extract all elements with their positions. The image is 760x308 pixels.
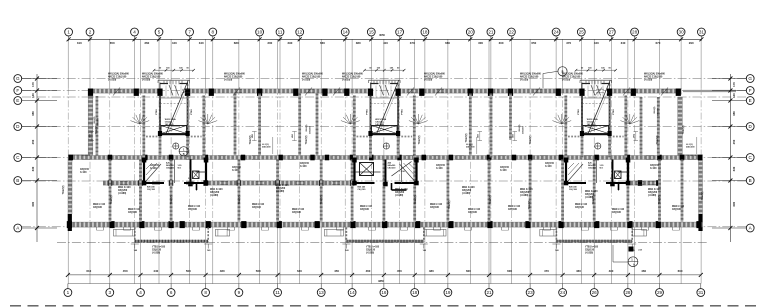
svg-text:W2CL760A: W2CL760A	[587, 118, 598, 121]
svg-text:KL6(2): KL6(2)	[94, 116, 96, 123]
svg-text:(-0.080): (-0.080)	[462, 193, 470, 195]
svg-text:N4C22 C10@100: N4C22 C10@100	[562, 75, 581, 78]
wall band on line C	[68, 156, 703, 160]
right end wall upper	[678, 97, 683, 156]
svg-text:1: 1	[67, 30, 70, 35]
svg-text:380: 380	[356, 41, 361, 45]
service cluster 2	[352, 158, 419, 192]
svg-text:YKL7(2): YKL7(2)	[683, 125, 685, 134]
svg-text:C8@180: C8@180	[188, 209, 198, 211]
svg-text:450: 450	[334, 269, 339, 273]
interior partitions upper	[97, 94, 658, 158]
svg-text:LL1(1): LL1(1)	[262, 144, 269, 146]
svg-text:15: 15	[369, 30, 375, 35]
svg-text:460: 460	[576, 269, 581, 273]
svg-text:WB1 h=120: WB1 h=120	[395, 189, 408, 191]
svg-text:C8@150: C8@150	[500, 167, 510, 169]
svg-text:31: 31	[699, 30, 705, 35]
stair fans core 2	[341, 114, 428, 124]
svg-text:YTB1 h=100: YTB1 h=100	[585, 247, 599, 249]
svg-text:3: 3	[109, 290, 112, 295]
window marks on C wall	[82, 156, 696, 159]
annotations below balconies	[152, 247, 599, 255]
svg-text:14: 14	[350, 290, 356, 295]
svg-text:C8@150: C8@150	[150, 165, 160, 167]
window marks on B wall	[120, 181, 656, 184]
svg-text:C8@200: C8@200	[395, 192, 405, 194]
svg-text:(-0.080): (-0.080)	[520, 195, 528, 197]
svg-text:YKL7(2): YKL7(2)	[171, 195, 173, 204]
detail circle mark b	[613, 245, 638, 267]
svg-text:140: 140	[732, 93, 736, 98]
svg-text:600: 600	[507, 269, 512, 273]
svg-text:290: 290	[689, 41, 694, 45]
svg-text:C8@200: C8@200	[118, 190, 128, 192]
svg-text:WB2 h=110: WB2 h=110	[612, 209, 625, 211]
svg-text:10: 10	[257, 30, 263, 35]
svg-text:440: 440	[172, 41, 177, 45]
svg-text:5: 5	[158, 30, 161, 35]
svg-text:C8@150: C8@150	[366, 249, 376, 251]
svg-text:C8@180: C8@180	[508, 209, 518, 211]
svg-text:340: 340	[621, 41, 626, 45]
svg-text:C8@180: C8@180	[575, 207, 585, 209]
svg-text:N4C22 C10@100: N4C22 C10@100	[644, 75, 663, 78]
left end wall lower	[68, 158, 72, 231]
svg-text:WB2 h=110: WB2 h=110	[292, 209, 305, 211]
svg-text:(-0.030): (-0.030)	[142, 79, 150, 81]
svg-text:670: 670	[655, 41, 660, 45]
svg-text:480: 480	[220, 269, 225, 273]
svg-text:h=100: h=100	[80, 172, 87, 174]
svg-text:26: 26	[592, 290, 598, 295]
vertical grid lines	[68, 39, 701, 283]
svg-text:2: 2	[89, 30, 92, 35]
service cluster 1	[142, 158, 209, 192]
right end wall lower	[699, 158, 703, 231]
svg-text:C8@180: C8@180	[128, 212, 138, 214]
svg-text:N4C22 C10@100: N4C22 C10@100	[520, 75, 539, 78]
svg-text:KL6(2): KL6(2)	[519, 124, 521, 131]
svg-text:(-0.080): (-0.080)	[210, 195, 218, 197]
svg-text:25: 25	[579, 30, 585, 35]
svg-text:h=100: h=100	[650, 168, 657, 170]
svg-text:h=100: h=100	[545, 166, 552, 168]
svg-text:WB2 h=110: WB2 h=110	[128, 209, 141, 211]
svg-text:C8@200: C8@200	[588, 168, 597, 170]
svg-text:490: 490	[609, 269, 614, 273]
svg-text:WB1 h=120: WB1 h=120	[520, 189, 533, 191]
svg-text:WB2 h=110: WB2 h=110	[93, 204, 106, 206]
svg-text:170: 170	[31, 82, 35, 87]
bottom dimension line	[66, 269, 703, 289]
svg-text:240x300: 240x300	[466, 146, 475, 149]
svg-text:650: 650	[110, 41, 115, 45]
svg-text:WB2 h=110: WB2 h=110	[188, 206, 201, 208]
columns on line A	[67, 221, 702, 228]
svg-text:30: 30	[679, 30, 685, 35]
svg-text:(-0.030): (-0.030)	[644, 79, 652, 81]
svg-text:650: 650	[531, 41, 536, 45]
svg-text:C8@180: C8@180	[252, 207, 262, 209]
top exterior wall	[88, 89, 682, 93]
svg-text:C6@180: C6@180	[147, 189, 156, 191]
svg-text:WB2 h=110: WB2 h=110	[468, 209, 481, 211]
svg-text:WKL2(3A) 300x900: WKL2(3A) 300x900	[342, 73, 364, 76]
svg-text:410: 410	[383, 41, 388, 45]
svg-text:YKL7(2): YKL7(2)	[657, 135, 659, 144]
svg-text:3050: 3050	[379, 33, 385, 37]
svg-text:YKL7(2): YKL7(2)	[96, 125, 98, 134]
svg-text:E: E	[16, 98, 19, 103]
svg-text:PTB1: PTB1	[402, 108, 404, 114]
svg-text:300x600: 300x600	[98, 117, 100, 126]
svg-text:27: 27	[609, 30, 615, 35]
svg-text:20: 20	[468, 30, 474, 35]
svg-text:(-0.030): (-0.030)	[302, 79, 310, 81]
svg-text:W2CL760A: W2CL760A	[165, 118, 176, 121]
svg-text:140 2400: 140 2400	[375, 123, 385, 126]
svg-text:310: 310	[77, 41, 82, 45]
svg-text:h=100: h=100	[300, 166, 307, 168]
svg-text:680: 680	[234, 41, 239, 45]
svg-text:YKL7(2): YKL7(2)	[239, 195, 241, 204]
right dimension line	[712, 74, 746, 242]
stair core 1	[144, 67, 204, 158]
svg-text:C8@150: C8@150	[232, 167, 242, 169]
svg-text:YKL7(2): YKL7(2)	[415, 195, 417, 204]
top grid bubbles	[65, 28, 706, 36]
svg-text:B: B	[183, 153, 185, 156]
svg-text:h=100: h=100	[232, 170, 239, 172]
svg-text:(-0.830): (-0.830)	[152, 252, 160, 254]
svg-text:C8@180: C8@180	[430, 207, 440, 209]
svg-text:N4C22 C10@100: N4C22 C10@100	[224, 75, 243, 78]
svg-text:460: 460	[641, 269, 646, 273]
svg-text:300x600: 300x600	[310, 125, 312, 134]
svg-text:(-0.030): (-0.030)	[108, 79, 116, 81]
svg-text:(-0.080): (-0.080)	[395, 195, 403, 197]
svg-text:C8@200: C8@200	[462, 190, 472, 192]
svg-text:WB1 h=120: WB1 h=120	[276, 185, 289, 187]
svg-text:450: 450	[31, 139, 35, 144]
svg-text:N4C22 C10@100: N4C22 C10@100	[108, 75, 127, 78]
door marks below line A wall	[97, 227, 680, 230]
left dimension line	[22, 74, 57, 242]
svg-text:660: 660	[445, 41, 450, 45]
svg-text:F: F	[749, 88, 752, 93]
svg-text:18: 18	[412, 290, 418, 295]
svg-text:C8@180: C8@180	[93, 207, 103, 209]
svg-text:360: 360	[144, 41, 149, 45]
svg-text:14: 14	[343, 30, 349, 35]
svg-text:WKL2(3A) 300x900: WKL2(3A) 300x900	[562, 73, 584, 76]
stair fans core 1	[130, 114, 217, 124]
svg-text:8: 8	[204, 290, 207, 295]
svg-text:24: 24	[554, 30, 560, 35]
svg-text:YKL7(2): YKL7(2)	[63, 185, 65, 194]
svg-text:YTB1 h=100: YTB1 h=100	[366, 247, 380, 249]
svg-text:PTB1: PTB1	[578, 108, 580, 114]
line F thick right extension	[683, 90, 736, 92]
svg-text:YTB1 h=100: YTB1 h=100	[152, 247, 166, 249]
top wall columns	[88, 89, 681, 96]
svg-text:h=100: h=100	[500, 170, 507, 172]
svg-text:450: 450	[732, 139, 736, 144]
svg-text:600: 600	[678, 269, 683, 273]
left end wall upper	[88, 96, 93, 156]
svg-text:140: 140	[31, 93, 35, 98]
svg-text:4: 4	[139, 290, 142, 295]
svg-text:YKL7(2): YKL7(2)	[466, 133, 468, 142]
svg-text:470: 470	[544, 269, 549, 273]
balconies below line A	[114, 228, 647, 242]
svg-text:480: 480	[429, 269, 434, 273]
svg-text:C8@180: C8@180	[292, 212, 302, 214]
svg-text:C8@150: C8@150	[436, 165, 446, 167]
svg-text:YKL7(2): YKL7(2)	[593, 195, 595, 204]
stair core 2	[354, 67, 414, 158]
svg-text:C8@180: C8@180	[612, 212, 622, 214]
svg-text:29: 29	[657, 290, 663, 295]
svg-text:WKL2(3A) 300x900: WKL2(3A) 300x900	[224, 73, 246, 76]
svg-text:C8@150: C8@150	[545, 163, 555, 165]
svg-text:450: 450	[123, 269, 128, 273]
room texts lower band	[93, 204, 685, 214]
svg-text:WKL2(3A) 300x900: WKL2(3A) 300x900	[108, 73, 130, 76]
wall band on line B	[103, 181, 661, 185]
annotations in rooms	[118, 185, 661, 199]
svg-text:YKL7(2): YKL7(2)	[490, 195, 492, 204]
svg-text:C8@200: C8@200	[648, 192, 658, 194]
svg-text:YKL7(2): YKL7(2)	[529, 200, 531, 209]
svg-text:340: 340	[199, 41, 204, 45]
svg-text:B: B	[16, 178, 19, 183]
svg-text:KL6(2): KL6(2)	[654, 106, 656, 113]
svg-text:(-0.830): (-0.830)	[585, 252, 593, 254]
svg-text:6: 6	[170, 290, 173, 295]
svg-text:W2CL760A: W2CL760A	[375, 118, 386, 121]
left step wall	[68, 155, 90, 158]
svg-text:YKL7(2): YKL7(2)	[419, 135, 421, 144]
svg-text:690: 690	[732, 201, 736, 206]
window sill marks on top wall	[113, 88, 670, 96]
svg-text:C8@180: C8@180	[672, 209, 682, 211]
svg-text:9: 9	[238, 290, 241, 295]
svg-text:WB1 h=120: WB1 h=120	[648, 189, 661, 191]
svg-text:4: 4	[133, 30, 136, 35]
svg-text:C8@150: C8@150	[650, 165, 660, 167]
svg-text:1: 1	[67, 290, 70, 295]
rotated beam labels	[63, 125, 704, 209]
svg-text:(-0.080): (-0.080)	[118, 193, 126, 195]
svg-text:YKL7(2): YKL7(2)	[530, 135, 532, 144]
svg-text:YKL7(2): YKL7(2)	[321, 195, 323, 204]
svg-text:(-0.030): (-0.030)	[342, 79, 350, 81]
svg-text:F: F	[16, 88, 19, 93]
horizontal grid lines A-G	[22, 79, 746, 227]
svg-text:G: G	[16, 76, 20, 81]
svg-text:610: 610	[86, 269, 91, 273]
svg-text:PTB1: PTB1	[156, 108, 158, 114]
svg-text:WB1 h=120: WB1 h=120	[585, 191, 598, 193]
beam label stacks	[94, 106, 660, 134]
svg-text:E: E	[749, 98, 752, 103]
svg-text:C8@180: C8@180	[468, 212, 478, 214]
svg-text:C6@180: C6@180	[358, 189, 367, 191]
svg-text:300: 300	[478, 41, 483, 45]
svg-text:B: B	[749, 178, 752, 183]
svg-text:600: 600	[466, 269, 471, 273]
svg-text:WKL2(3A) 300x900: WKL2(3A) 300x900	[142, 73, 164, 76]
svg-text:11: 11	[278, 30, 283, 35]
detail circle mark 5	[543, 67, 567, 88]
svg-text:330: 330	[31, 166, 35, 171]
svg-text:440: 440	[594, 41, 599, 45]
svg-text:WKL2(3A) 300x900: WKL2(3A) 300x900	[424, 73, 446, 76]
svg-text:9850: 9850	[378, 280, 384, 283]
svg-text:WB1 h=120: WB1 h=120	[118, 187, 131, 189]
columns on line B	[108, 180, 661, 186]
svg-text:YKL7(2): YKL7(2)	[111, 195, 113, 204]
svg-text:YKL7(2): YKL7(2)	[449, 200, 451, 209]
svg-text:170: 170	[732, 82, 736, 87]
svg-text:C8@150: C8@150	[585, 249, 595, 251]
balcony mini dimensions	[131, 244, 636, 252]
top dimension line	[67, 33, 704, 45]
svg-text:(-0.030): (-0.030)	[520, 79, 528, 81]
svg-text:N4C22 C10@100: N4C22 C10@100	[342, 75, 361, 78]
svg-text:WB2 h=110: WB2 h=110	[672, 206, 685, 208]
svg-text:N4C22 C10@100: N4C22 C10@100	[302, 75, 321, 78]
svg-text:WKL2(3A) 300x900: WKL2(3A) 300x900	[520, 73, 542, 76]
svg-text:290: 290	[287, 41, 292, 45]
svg-text:630: 630	[297, 269, 302, 273]
svg-text:(-0.030): (-0.030)	[424, 79, 432, 81]
svg-text:WB2 h=110: WB2 h=110	[508, 206, 521, 208]
svg-text:28: 28	[632, 30, 638, 35]
svg-text:440: 440	[153, 269, 158, 273]
svg-text:17: 17	[397, 30, 403, 35]
leader annotations below line C	[262, 137, 697, 154]
svg-text:140 2400: 140 2400	[587, 123, 597, 126]
svg-text:380: 380	[732, 111, 736, 116]
svg-text:C8@180: C8@180	[360, 209, 370, 211]
svg-text:WKL2(3A) 300x900: WKL2(3A) 300x900	[302, 73, 324, 76]
svg-text:21: 21	[486, 290, 492, 295]
svg-text:C6@180: C6@180	[569, 189, 578, 191]
svg-text:C8@150: C8@150	[300, 163, 310, 165]
svg-text:LL1(1): LL1(1)	[686, 144, 693, 146]
svg-text:16: 16	[381, 290, 387, 295]
sheet edge dashes at bottom	[10, 305, 760, 307]
svg-text:300: 300	[267, 41, 272, 45]
right step wall	[682, 155, 703, 158]
svg-text:YKL7(2): YKL7(2)	[659, 195, 661, 204]
svg-text:23: 23	[528, 290, 534, 295]
svg-text:G: G	[748, 76, 752, 81]
svg-text:330: 330	[732, 166, 736, 171]
small box detail near circle b	[629, 247, 643, 252]
svg-text:560: 560	[256, 269, 261, 273]
svg-text:450: 450	[397, 269, 402, 273]
svg-text:(-0.080): (-0.080)	[276, 191, 284, 193]
room texts mid band	[80, 163, 660, 174]
svg-text:KL6(2): KL6(2)	[306, 124, 308, 131]
svg-text:13: 13	[319, 290, 325, 295]
left grid bubbles	[14, 75, 22, 232]
svg-text:240x300: 240x300	[686, 146, 695, 149]
svg-text:(-0.030): (-0.030)	[224, 79, 232, 81]
svg-text:19: 19	[445, 290, 451, 295]
svg-text:WB2 h=110: WB2 h=110	[360, 206, 373, 208]
svg-text:C8@200: C8@200	[210, 192, 220, 194]
bottom grid bubbles	[64, 289, 705, 297]
svg-text:N4C22 C10@100: N4C22 C10@100	[424, 75, 443, 78]
svg-text:(-0.030): (-0.030)	[562, 79, 570, 81]
balcony edge dash line	[57, 242, 708, 244]
svg-text:LL1(1): LL1(1)	[466, 144, 473, 146]
svg-text:21: 21	[488, 30, 494, 35]
svg-text:660: 660	[320, 41, 325, 45]
svg-text:18: 18	[422, 30, 428, 35]
svg-text:C8@200: C8@200	[166, 168, 175, 170]
svg-text:11: 11	[275, 290, 280, 295]
svg-text:24: 24	[560, 290, 566, 295]
svg-text:C8@150: C8@150	[80, 169, 90, 171]
svg-text:WKL2(3A) 300x900: WKL2(3A) 300x900	[644, 73, 666, 76]
svg-text:500: 500	[186, 269, 191, 273]
interior partitions lower	[110, 160, 682, 222]
svg-text:C8@200: C8@200	[585, 194, 595, 196]
svg-text:YKL7(2): YKL7(2)	[702, 191, 704, 200]
svg-text:YKL7(2): YKL7(2)	[306, 135, 308, 144]
svg-text:WB1 h=120: WB1 h=120	[462, 187, 475, 189]
svg-text:8: 8	[212, 30, 215, 35]
svg-text:N4C22 C10@100: N4C22 C10@100	[142, 75, 161, 78]
svg-text:(-0.830): (-0.830)	[366, 252, 374, 254]
svg-text:28: 28	[625, 290, 631, 295]
svg-text:PTB1: PTB1	[613, 108, 615, 114]
svg-text:300x600: 300x600	[658, 107, 660, 116]
svg-text:C8@150: C8@150	[152, 249, 162, 251]
columns on line C	[69, 155, 703, 161]
mini vertical dims at upper partitions	[88, 132, 638, 141]
svg-text:380: 380	[31, 111, 35, 116]
detail circle mark B on cluster	[179, 147, 188, 157]
svg-text:370: 370	[566, 41, 571, 45]
svg-text:WB2 h=110: WB2 h=110	[430, 204, 443, 206]
svg-text:C8@200: C8@200	[276, 188, 286, 190]
svg-text:C8@200: C8@200	[388, 168, 397, 170]
stair fans core 3	[552, 114, 639, 124]
wall band on line A	[68, 222, 703, 227]
svg-text:370: 370	[410, 41, 415, 45]
svg-text:12: 12	[297, 30, 303, 35]
svg-text:(-0.080): (-0.080)	[648, 195, 656, 197]
svg-text:690: 690	[31, 201, 35, 206]
service cluster 3	[564, 158, 631, 192]
svg-text:300x600: 300x600	[523, 125, 525, 134]
svg-text:22: 22	[509, 30, 515, 35]
svg-text:300: 300	[499, 41, 504, 45]
svg-text:WB1 h=120: WB1 h=120	[210, 189, 223, 191]
svg-text:240x300: 240x300	[262, 146, 271, 149]
annotations above top wall	[108, 73, 666, 82]
stair core 3	[566, 67, 626, 158]
svg-text:h=100: h=100	[436, 168, 443, 170]
svg-text:460: 460	[366, 269, 371, 273]
